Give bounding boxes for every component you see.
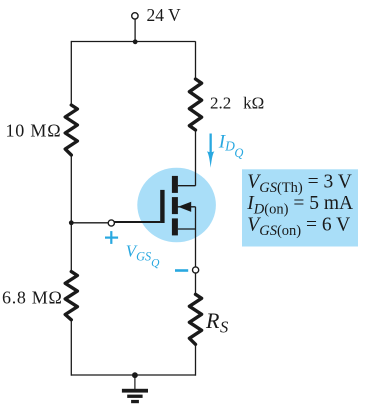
resistor R1 10 Mohm xyxy=(65,105,77,155)
node junction top xyxy=(133,39,138,44)
svg-text:RS: RS xyxy=(205,308,228,337)
svg-text:6.8 MΩ: 6.8 MΩ xyxy=(2,288,63,308)
wire source vertical xyxy=(195,229,197,267)
svg-text:IDQ: IDQ xyxy=(218,131,244,160)
transistor Q1 substrate arrow xyxy=(177,206,196,208)
wire left middle xyxy=(70,155,72,273)
wire left lower xyxy=(70,319,72,376)
wire right lower xyxy=(195,344,197,376)
transistor Q1 channel bottom segment xyxy=(172,218,178,235)
transistor Q1 gate bar xyxy=(160,190,164,223)
transistor Q1 channel middle segment xyxy=(172,197,178,214)
wire bottom horizontal xyxy=(71,374,195,376)
node junction ground xyxy=(132,372,138,378)
svg-text:10 MΩ: 10 MΩ xyxy=(6,121,62,141)
source terminal circle xyxy=(193,267,199,273)
resistor RD 2.2 kohm xyxy=(189,79,201,130)
supply terminal circle xyxy=(132,13,138,19)
wire gate lead xyxy=(115,221,161,223)
transistor Q1 drain lead xyxy=(178,185,196,187)
wire substrate to source xyxy=(195,207,197,229)
wire top stub from supply xyxy=(134,19,136,41)
resistor R2 6.8 Mohm xyxy=(65,272,77,320)
current arrow IDQ xyxy=(207,134,215,168)
wire top horizontal xyxy=(71,41,195,43)
wire left upper xyxy=(70,41,72,106)
transistor Q1 channel top segment xyxy=(172,176,178,193)
node junction gate xyxy=(69,220,74,225)
resistor RS xyxy=(189,294,201,344)
minus sign xyxy=(175,269,188,272)
MOSFET highlight circle xyxy=(137,168,216,243)
wire right upper xyxy=(195,41,197,79)
wire drain vertical xyxy=(195,130,197,186)
plus sign xyxy=(105,231,118,244)
parameter box xyxy=(242,169,358,246)
svg-text:VGSQ: VGSQ xyxy=(126,241,160,269)
wire below source circle xyxy=(195,272,197,295)
wire gate from junction xyxy=(71,222,108,224)
svg-text:24 V: 24 V xyxy=(147,5,182,25)
gate terminal circle xyxy=(108,220,114,226)
svg-text:2.2 kΩ: 2.2 kΩ xyxy=(210,94,264,113)
transistor Q1 source lead xyxy=(178,228,196,230)
ground xyxy=(122,375,148,403)
